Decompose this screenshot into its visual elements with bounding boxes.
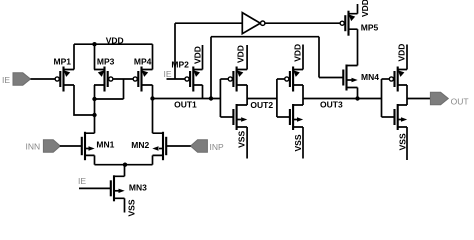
wire MN2 source down bbox=[152, 155, 154, 164]
svg-text:VDD: VDD bbox=[106, 36, 124, 46]
svg-text:IE: IE bbox=[164, 69, 172, 79]
svg-text:OUT: OUT bbox=[451, 96, 469, 106]
wire VDD rail bbox=[74, 43, 153, 45]
transistor MN1 bbox=[82, 132, 115, 160]
transistor stage4 NMOS bbox=[395, 104, 408, 130]
svg-text:MN4: MN4 bbox=[361, 72, 379, 82]
wire MN4 gate bbox=[319, 77, 343, 79]
svg-text:INP: INP bbox=[210, 142, 225, 152]
pin IE bbox=[2, 73, 31, 85]
wire MP1 drain to node bbox=[74, 85, 95, 115]
transistor MP4 bbox=[133, 57, 152, 92]
wire stage4 input riser bbox=[381, 79, 383, 117]
wire stage2 input riser bbox=[219, 79, 221, 117]
svg-text:VDD: VDD bbox=[397, 44, 407, 62]
svg-text:VDD: VDD bbox=[236, 45, 246, 63]
transistor MN4 bbox=[343, 65, 379, 91]
wire INP to MN2 gate bbox=[166, 145, 191, 147]
wire tail rail bbox=[95, 164, 153, 166]
wire MN3 source to VSS bbox=[124, 198, 126, 212]
node dot OUT3 / MN4 bbox=[355, 96, 359, 100]
wire INN to MN1 gate bbox=[60, 145, 82, 147]
svg-text:MN3: MN3 bbox=[129, 182, 147, 192]
transistor stage3 PMOS bbox=[285, 67, 303, 92]
transistor stage2 PMOS bbox=[228, 67, 247, 92]
wire OUT bbox=[407, 98, 430, 100]
inverter U1 bbox=[242, 13, 265, 34]
svg-text:IE: IE bbox=[2, 75, 10, 85]
svg-text:MP3: MP3 bbox=[97, 57, 115, 67]
svg-text:VDD: VDD bbox=[192, 46, 202, 64]
wire MP3 source to VDD rail bbox=[94, 44, 96, 69]
transistor MP1 bbox=[54, 57, 75, 92]
svg-text:VDD: VDD bbox=[360, 0, 370, 17]
wire MP2 gate up to inverter input bbox=[174, 23, 176, 79]
svg-text:OUT2: OUT2 bbox=[250, 100, 273, 110]
svg-text:MP5: MP5 bbox=[361, 22, 379, 32]
wire OUT2 bbox=[247, 98, 277, 100]
pin INP bbox=[191, 140, 225, 152]
wire inverter output to MP5 gate bbox=[265, 22, 340, 24]
wire MP5 drain to MN4 drain bbox=[357, 29, 359, 65]
wire stage3 NMOS gate bbox=[277, 116, 290, 118]
wire gate tap down (diode connection) bbox=[123, 79, 125, 99]
transistor stage2 NMOS bbox=[233, 104, 247, 130]
wire stage3 VSS stub bbox=[302, 127, 304, 159]
svg-text:VSS: VSS bbox=[237, 131, 247, 148]
node dot MP1/MP3/MN1 drains bbox=[92, 113, 96, 117]
svg-text:MP1: MP1 bbox=[54, 57, 72, 67]
wire feedback down to MN4 gate bbox=[318, 37, 320, 78]
wire stage3 VDD stub bbox=[302, 45, 304, 70]
wire MN4 source to OUT3 bbox=[357, 88, 359, 99]
svg-text:VSS: VSS bbox=[127, 199, 137, 216]
wire inverter input bbox=[175, 22, 242, 24]
wire stage2 PMOS gate bbox=[220, 78, 228, 80]
wire stage4 VSS stub bbox=[406, 127, 408, 160]
wire MP2 gate stub bbox=[167, 78, 185, 80]
svg-text:MN1: MN1 bbox=[96, 140, 114, 150]
node dot VDD rail / MP3 source bbox=[92, 42, 96, 46]
wire MP3 drain down to MN1 drain bbox=[94, 85, 96, 133]
wire MP4 source to VDD rail bbox=[152, 44, 154, 69]
wire stage2 VDD stub bbox=[246, 45, 248, 70]
svg-text:MP2: MP2 bbox=[171, 60, 189, 70]
svg-text:VSS: VSS bbox=[293, 134, 303, 151]
wire stage4 NMOS drain up bbox=[406, 99, 408, 106]
transistor MP5 bbox=[340, 11, 378, 36]
svg-text:MN2: MN2 bbox=[131, 140, 149, 150]
svg-text:VDD: VDD bbox=[292, 44, 302, 62]
svg-text:OUT3: OUT3 bbox=[320, 100, 343, 110]
transistor stage4 PMOS bbox=[389, 67, 407, 92]
wire MN3 drain up to tail bbox=[124, 165, 126, 177]
wire stage4 PMOS drain bbox=[406, 85, 408, 99]
wire IE to MP1 gate bbox=[31, 78, 56, 80]
svg-text:OUT1: OUT1 bbox=[174, 99, 197, 109]
svg-text:VSS: VSS bbox=[397, 133, 407, 150]
transistor MN3 bbox=[111, 175, 147, 201]
wire stage2 NMOS gate bbox=[220, 116, 233, 118]
wire MN2 drain up to OUT1 bbox=[152, 99, 154, 134]
wire diode tap to MP3 drain bbox=[95, 98, 124, 100]
wire MP3/MP4 gates bbox=[113, 78, 133, 80]
node dot OUT1 left bbox=[150, 96, 154, 100]
wire MP5 source to VDD bbox=[357, 4, 359, 14]
wire MP2 source to VDD bbox=[202, 45, 204, 70]
wire MP1 source to VDD rail bbox=[73, 44, 75, 69]
wire MN1 source down bbox=[94, 155, 96, 164]
pin OUT bbox=[430, 92, 468, 106]
wire stage4 NMOS gate bbox=[382, 116, 395, 118]
node dot tail / MN3 drain bbox=[123, 163, 127, 167]
wire stage2 VSS stub bbox=[246, 127, 248, 159]
wire stage4 VDD stub bbox=[406, 45, 408, 70]
pin INN bbox=[26, 140, 61, 152]
wire IE stub to MN3 gate bbox=[79, 187, 111, 189]
wire feedback OUT1 up bbox=[210, 37, 212, 99]
wire OUT3 bbox=[303, 98, 382, 100]
wire stage3 NMOS drain up bbox=[302, 99, 304, 106]
wire stage3 PMOS drain bbox=[302, 85, 304, 99]
node dot OUT1 feedback tap bbox=[209, 96, 213, 100]
wire stage3 PMOS gate bbox=[277, 78, 285, 80]
svg-text:IE: IE bbox=[78, 176, 86, 186]
svg-text:INN: INN bbox=[26, 141, 41, 151]
wire feedback across bbox=[211, 36, 319, 38]
transistor stage3 NMOS bbox=[290, 104, 303, 130]
transistor MN2 (mirrored) bbox=[131, 132, 166, 160]
wire MP2 drain to OUT1 bbox=[202, 85, 204, 99]
transistor MP3 (mirrored) bbox=[94, 57, 115, 92]
wire stage2 PMOS drain bbox=[246, 85, 248, 99]
wire stage2 NMOS drain up bbox=[246, 99, 248, 106]
wire OUT1 bbox=[153, 98, 221, 100]
svg-text:MP4: MP4 bbox=[134, 57, 152, 67]
wire MP4 drain to OUT1 bbox=[152, 85, 154, 99]
transistor MP2 bbox=[171, 60, 202, 92]
wire stage4 PMOS gate bbox=[382, 78, 390, 80]
wire stage3 input riser bbox=[276, 79, 278, 117]
node dot MP3 drain diode tap bbox=[92, 97, 96, 101]
